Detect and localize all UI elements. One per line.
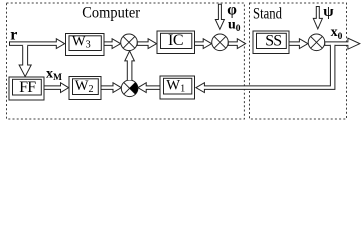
block IC <box>157 31 195 54</box>
svg-text:φ: φ <box>227 2 237 19</box>
svg-text:r: r <box>10 27 17 44</box>
svg-text:Stand: Stand <box>253 5 283 23</box>
wire sum3 to output edge <box>325 38 360 49</box>
svg-text:ψ: ψ <box>323 4 334 20</box>
block W3 <box>66 34 105 56</box>
svg-text:SS: SS <box>265 33 281 50</box>
summing junction sum2 <box>212 34 229 51</box>
wire W1 to comparator <box>138 83 160 93</box>
wire r input arrow into W3 <box>10 39 65 49</box>
wire phi disturbance arrow down <box>215 4 224 29</box>
wire psi disturbance arrow down <box>313 7 322 29</box>
svg-text:Computer: Computer <box>82 5 140 22</box>
block FF <box>9 77 44 100</box>
wire comparator up into sum1 <box>125 51 135 80</box>
wire sum1 to IC <box>137 39 156 49</box>
dashed enclosure Computer <box>7 3 245 119</box>
node tee of r branch <box>23 45 27 46</box>
wire FF to W2 <box>44 83 69 93</box>
dashed enclosure Stand <box>250 3 347 119</box>
svg-text:FF: FF <box>19 79 36 96</box>
summing junction sum1 <box>121 34 138 51</box>
svg-text:IC: IC <box>168 32 183 49</box>
wire SS to sum3 <box>289 39 308 49</box>
summing junction sum3 <box>308 34 325 51</box>
block W2 <box>69 77 101 100</box>
block W1 <box>160 76 195 99</box>
wire feedback elbow from output down and left into W1 <box>196 45 335 93</box>
wire branch down to FF <box>19 46 31 77</box>
wire W2 to comparator <box>101 83 121 93</box>
comparator with filled sector <box>121 80 138 97</box>
wire W3 to sum1 <box>104 39 121 49</box>
wire IC to sum2 <box>195 39 212 49</box>
block SS <box>253 31 289 54</box>
wire sum2 toward SS crossing borders <box>228 39 245 49</box>
